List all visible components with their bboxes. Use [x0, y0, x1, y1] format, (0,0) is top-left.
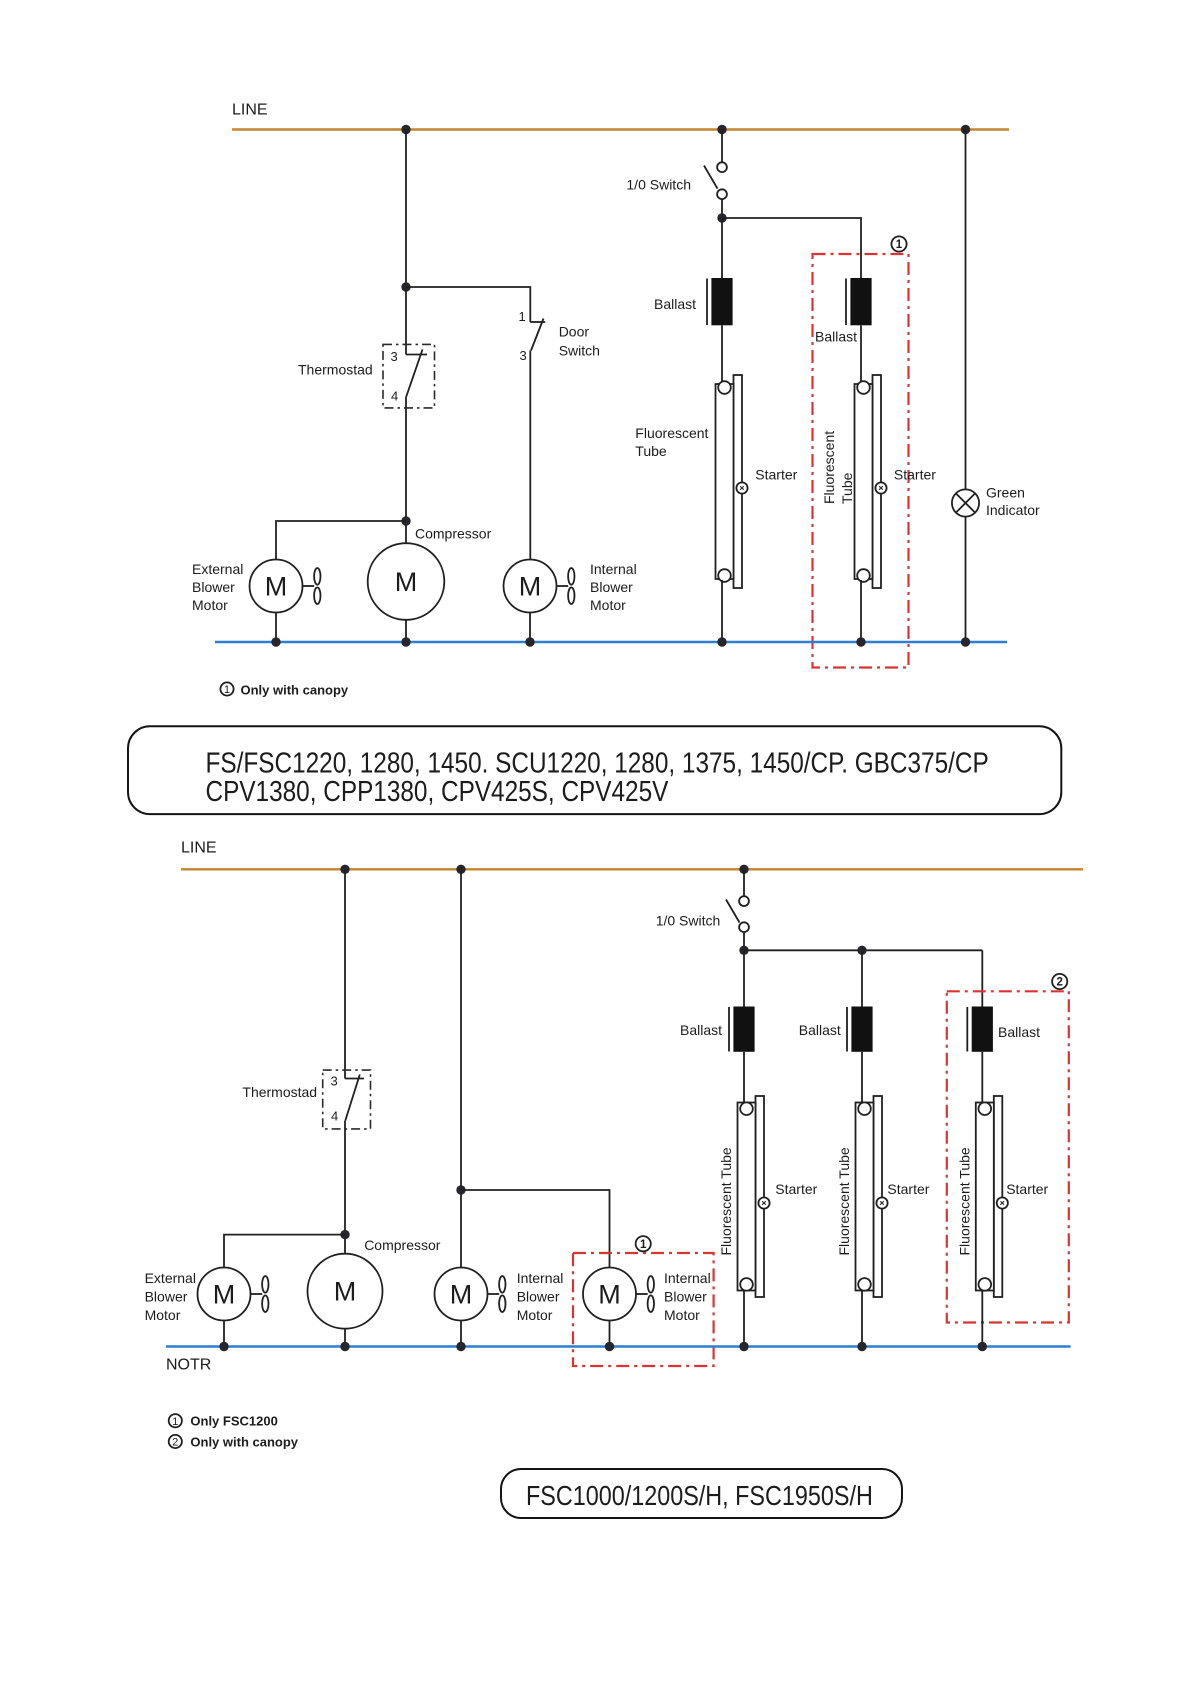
wire LINE to 1/0 switch — [721, 130, 723, 163]
junction external blower on neutral — [271, 637, 280, 646]
svg-text:3: 3 — [331, 1074, 338, 1089]
canopy option dash-dot red enclosure (bottom right) — [947, 991, 1069, 1322]
svg-text:3: 3 — [520, 348, 527, 363]
svg-text:1/0 Switch: 1/0 Switch — [656, 913, 721, 929]
wire tube 1 to NOTR — [743, 1291, 745, 1347]
external blower motor M (top) — [250, 560, 303, 613]
model list text — [206, 747, 989, 808]
ballast 2 (bottom) — [847, 1007, 873, 1052]
wire compressor to NOTR — [344, 1329, 346, 1347]
ballast 2 (top) — [846, 278, 872, 325]
svg-text:Starter: Starter — [894, 467, 936, 483]
svg-text:Compressor: Compressor — [364, 1237, 441, 1253]
svg-text:3: 3 — [391, 349, 398, 364]
thermostat switch blade — [406, 350, 422, 397]
wire 1/0 switch to junction — [721, 199, 723, 218]
junction internal blower 2 on NOTR — [605, 1342, 614, 1351]
wire ballast 1 to tube 1 (bottom) — [743, 1052, 745, 1104]
starter 1 (top) — [736, 482, 747, 493]
svg-text:M: M — [334, 1277, 357, 1307]
junction internal blower 1 on NOTR — [456, 1342, 465, 1351]
fluorescent tube 1 (top) with starter loop — [716, 375, 743, 588]
internal blower motor M (top) — [504, 560, 557, 613]
door switch blade — [531, 319, 544, 351]
LINE bus wire (orange, bottom) — [181, 868, 1083, 870]
model list box (bottom) — [501, 1469, 902, 1518]
compressor motor M (bottom) — [308, 1254, 383, 1329]
circled 1 marker (bottom) — [636, 1236, 651, 1251]
svg-text:LINE: LINE — [181, 840, 217, 857]
svg-text:Tube: Tube — [839, 472, 855, 504]
junction on LINE at green indicator branch — [961, 125, 970, 134]
wire thermostat contact 4 to compressor (bottom) — [344, 1121, 346, 1254]
svg-text:Ballast: Ballast — [654, 296, 696, 312]
junction node to door switch branch — [401, 282, 410, 291]
1/0 switch (top) — [704, 162, 727, 199]
ballast 1 (top) — [707, 278, 733, 325]
svg-text:2: 2 — [1056, 977, 1062, 989]
junction node at ballast 2 branch — [857, 946, 866, 955]
junction internal blower on neutral — [525, 637, 534, 646]
thermostat contact 3 tick — [406, 354, 427, 356]
compressor motor M (top) — [368, 543, 445, 620]
wire branch to internal blower motor 2 — [461, 1190, 610, 1268]
neutral bus wire (blue, top) — [215, 641, 1007, 643]
junction node below 1/0 switch (bottom) — [739, 946, 748, 955]
junction node internal blower branch — [456, 1185, 465, 1194]
junction node to external blower branch — [401, 516, 410, 525]
junction compressor on NOTR — [340, 1342, 349, 1351]
wire internal blower 2 to NOTR — [609, 1321, 611, 1347]
svg-text:M: M — [265, 572, 288, 602]
internal blower 2 fan — [636, 1276, 654, 1312]
svg-text:Only with canopy: Only with canopy — [241, 683, 349, 698]
wire ballast 1 to tube 1 — [721, 325, 723, 386]
starter 2 (top) — [875, 482, 886, 493]
svg-text:Fluorescent Tube: Fluorescent Tube — [718, 1147, 734, 1255]
wire LINE to green indicator — [965, 130, 967, 490]
svg-text:M: M — [598, 1280, 621, 1310]
wire branch to external blower motor (bottom) — [224, 1235, 345, 1268]
wire branch to ballast 2 — [722, 218, 861, 279]
external blower motor M (bottom) — [198, 1268, 251, 1321]
LINE bus wire (orange, top) — [232, 128, 1009, 130]
starter 2 (bottom) — [876, 1197, 887, 1208]
junction on LINE at thermostat branch — [401, 125, 410, 134]
fluorescent tube 2 (bottom) with starter loop — [856, 1096, 883, 1297]
junction tube 3 on NOTR — [978, 1342, 987, 1351]
svg-text:M: M — [450, 1280, 473, 1310]
internal blower motor 2 M (bottom, FSC1200 only) — [583, 1268, 636, 1321]
svg-text:4: 4 — [331, 1109, 338, 1124]
legend circled 1 (bottom) — [169, 1414, 182, 1428]
junction compressor on neutral — [401, 637, 410, 646]
junction tube 1 on NOTR — [739, 1342, 748, 1351]
junction tube 2 on neutral — [856, 637, 865, 646]
thermostat contact 3 tick (bottom) — [345, 1078, 364, 1080]
starter 1 (bottom) — [758, 1197, 769, 1208]
svg-text:Starter: Starter — [775, 1181, 817, 1197]
NOTR neutral bus wire (blue, bottom) — [166, 1345, 1071, 1347]
wire door switch contact 3 to internal blower motor — [529, 351, 531, 560]
wire tube 2 to neutral — [860, 580, 862, 642]
junction on LINE at internal blower branch (bottom) — [456, 865, 465, 874]
svg-text:Ballast: Ballast — [799, 1022, 841, 1038]
svg-text:Starter: Starter — [755, 467, 797, 483]
junction on LINE at thermostat branch (bottom) — [340, 865, 349, 874]
wire ballast 2 to tube 2 (bottom) — [861, 1052, 863, 1104]
wire tube 3 to NOTR — [981, 1291, 983, 1347]
wire internal blower to neutral — [529, 613, 531, 643]
svg-text:CPV1380, CPP1380, CPV425S, CPV: CPV1380, CPP1380, CPV425S, CPV425V — [206, 775, 669, 807]
wire branch to ballasts 2 and 3 — [744, 949, 982, 951]
wire external blower to NOTR — [223, 1321, 225, 1347]
thermostat switch blade (bottom) — [345, 1075, 360, 1121]
model list box (middle) — [128, 726, 1061, 814]
svg-text:Fluorescent Tube: Fluorescent Tube — [956, 1147, 972, 1255]
canopy option dash-dot red enclosure (top) — [813, 254, 909, 668]
svg-text:1: 1 — [224, 684, 230, 696]
svg-text:Fluorescent: Fluorescent — [821, 431, 837, 504]
fluorescent tube 2 (top) with starter loop — [855, 375, 882, 588]
svg-text:1: 1 — [896, 239, 903, 251]
circled 2 marker (bottom) — [1052, 974, 1067, 989]
external blower fan — [303, 568, 321, 604]
wire ballast 2 to tube 2 — [860, 325, 862, 386]
svg-text:Ballast: Ballast — [815, 329, 857, 345]
svg-text:Ballast: Ballast — [680, 1022, 722, 1038]
junction external blower on NOTR — [219, 1342, 228, 1351]
1/0 switch (bottom) — [726, 896, 749, 932]
svg-text:M: M — [519, 572, 542, 602]
svg-text:Starter: Starter — [1006, 1181, 1048, 1197]
wire LINE to internal blower junction (bottom) — [460, 869, 462, 1267]
FSC1200 option dash-dot red enclosure (bottom left) — [573, 1253, 714, 1366]
legend circled 1 (top) — [220, 682, 233, 696]
door switch contact 1 tick — [530, 321, 545, 323]
wire external blower to neutral — [275, 613, 277, 643]
wire branch to external blower motor — [276, 521, 406, 560]
wire junction to ballast 1 (bottom) — [743, 950, 745, 1007]
legend circled 2 (bottom) — [169, 1435, 182, 1449]
svg-text:1/0 Switch: 1/0 Switch — [626, 177, 691, 193]
wire LINE to thermostat contact 3 — [405, 130, 407, 355]
wire junction to ballast 2 (bottom) — [861, 950, 863, 1007]
wire thermostat contact 4 to compressor junction — [405, 397, 407, 544]
wire junction to ballast 1 — [721, 218, 723, 279]
ballast 3 (bottom) — [967, 1007, 993, 1052]
wire compressor to neutral — [405, 620, 407, 642]
wire internal blower 1 to NOTR — [460, 1321, 462, 1347]
svg-text:Thermostad: Thermostad — [242, 1084, 317, 1100]
junction on LINE at 1/0 switch branch (bottom) — [739, 865, 748, 874]
internal blower 1 fan — [488, 1276, 506, 1312]
wire LINE to thermostat (bottom) — [344, 869, 346, 1078]
wire to ballast 3 (bottom) — [981, 950, 983, 1007]
fluorescent tube 2 vertical label — [821, 431, 855, 504]
wire tube 1 to neutral — [721, 580, 723, 642]
wire tube 2 to NOTR — [861, 1291, 863, 1347]
svg-text:2: 2 — [172, 1437, 178, 1449]
ballast 1 (bottom) — [729, 1007, 755, 1052]
starter 3 (bottom) — [997, 1197, 1008, 1208]
circled 1 marker (top) — [891, 236, 906, 251]
green indicator lamp — [952, 489, 979, 516]
thermostat dashed enclosure (bottom) — [323, 1070, 371, 1129]
thermostat dashed enclosure — [383, 344, 435, 408]
fluorescent tube 1 (bottom) with starter loop — [738, 1096, 765, 1297]
fluorescent tube 3 (bottom) with starter loop — [976, 1096, 1003, 1297]
wire green indicator to neutral — [965, 517, 967, 642]
svg-text:Thermostad: Thermostad — [298, 362, 373, 378]
svg-text:Only FSC1200: Only FSC1200 — [190, 1414, 277, 1429]
wire LINE to 1/0 switch (bottom) — [743, 869, 745, 896]
svg-text:M: M — [395, 567, 418, 597]
svg-text:Compressor: Compressor — [415, 526, 492, 542]
svg-text:NOTR: NOTR — [166, 1357, 211, 1374]
svg-text:FSC1000/1200S/H, FSC1950S/H: FSC1000/1200S/H, FSC1950S/H — [526, 1481, 873, 1511]
junction node to external blower branch (bottom) — [340, 1230, 349, 1239]
junction on LINE at 1/0 switch branch — [717, 125, 726, 134]
junction node below 1/0 switch — [717, 213, 726, 222]
svg-text:Fluorescent Tube: Fluorescent Tube — [836, 1147, 852, 1255]
junction tube 1 on neutral — [717, 637, 726, 646]
wire ballast 3 to tube 3 (bottom) — [981, 1052, 983, 1104]
internal blower motor 1 M (bottom) — [435, 1268, 488, 1321]
svg-text:Starter: Starter — [887, 1181, 929, 1197]
svg-text:Only with canopy: Only with canopy — [190, 1435, 298, 1450]
wire branch to door switch contact 1 — [406, 287, 530, 322]
svg-text:1: 1 — [172, 1416, 178, 1428]
svg-text:1: 1 — [640, 1239, 647, 1251]
wire 1/0 switch to junction (bottom) — [743, 932, 745, 950]
junction tube 2 on NOTR — [857, 1342, 866, 1351]
external blower fan (bottom) — [251, 1276, 269, 1312]
junction green indicator on neutral — [961, 637, 970, 646]
svg-text:1: 1 — [519, 309, 526, 324]
svg-text:M: M — [213, 1280, 236, 1310]
svg-text:Ballast: Ballast — [998, 1024, 1040, 1040]
svg-text:LINE: LINE — [232, 102, 268, 119]
svg-text:4: 4 — [391, 389, 398, 404]
internal blower fan — [557, 568, 575, 604]
